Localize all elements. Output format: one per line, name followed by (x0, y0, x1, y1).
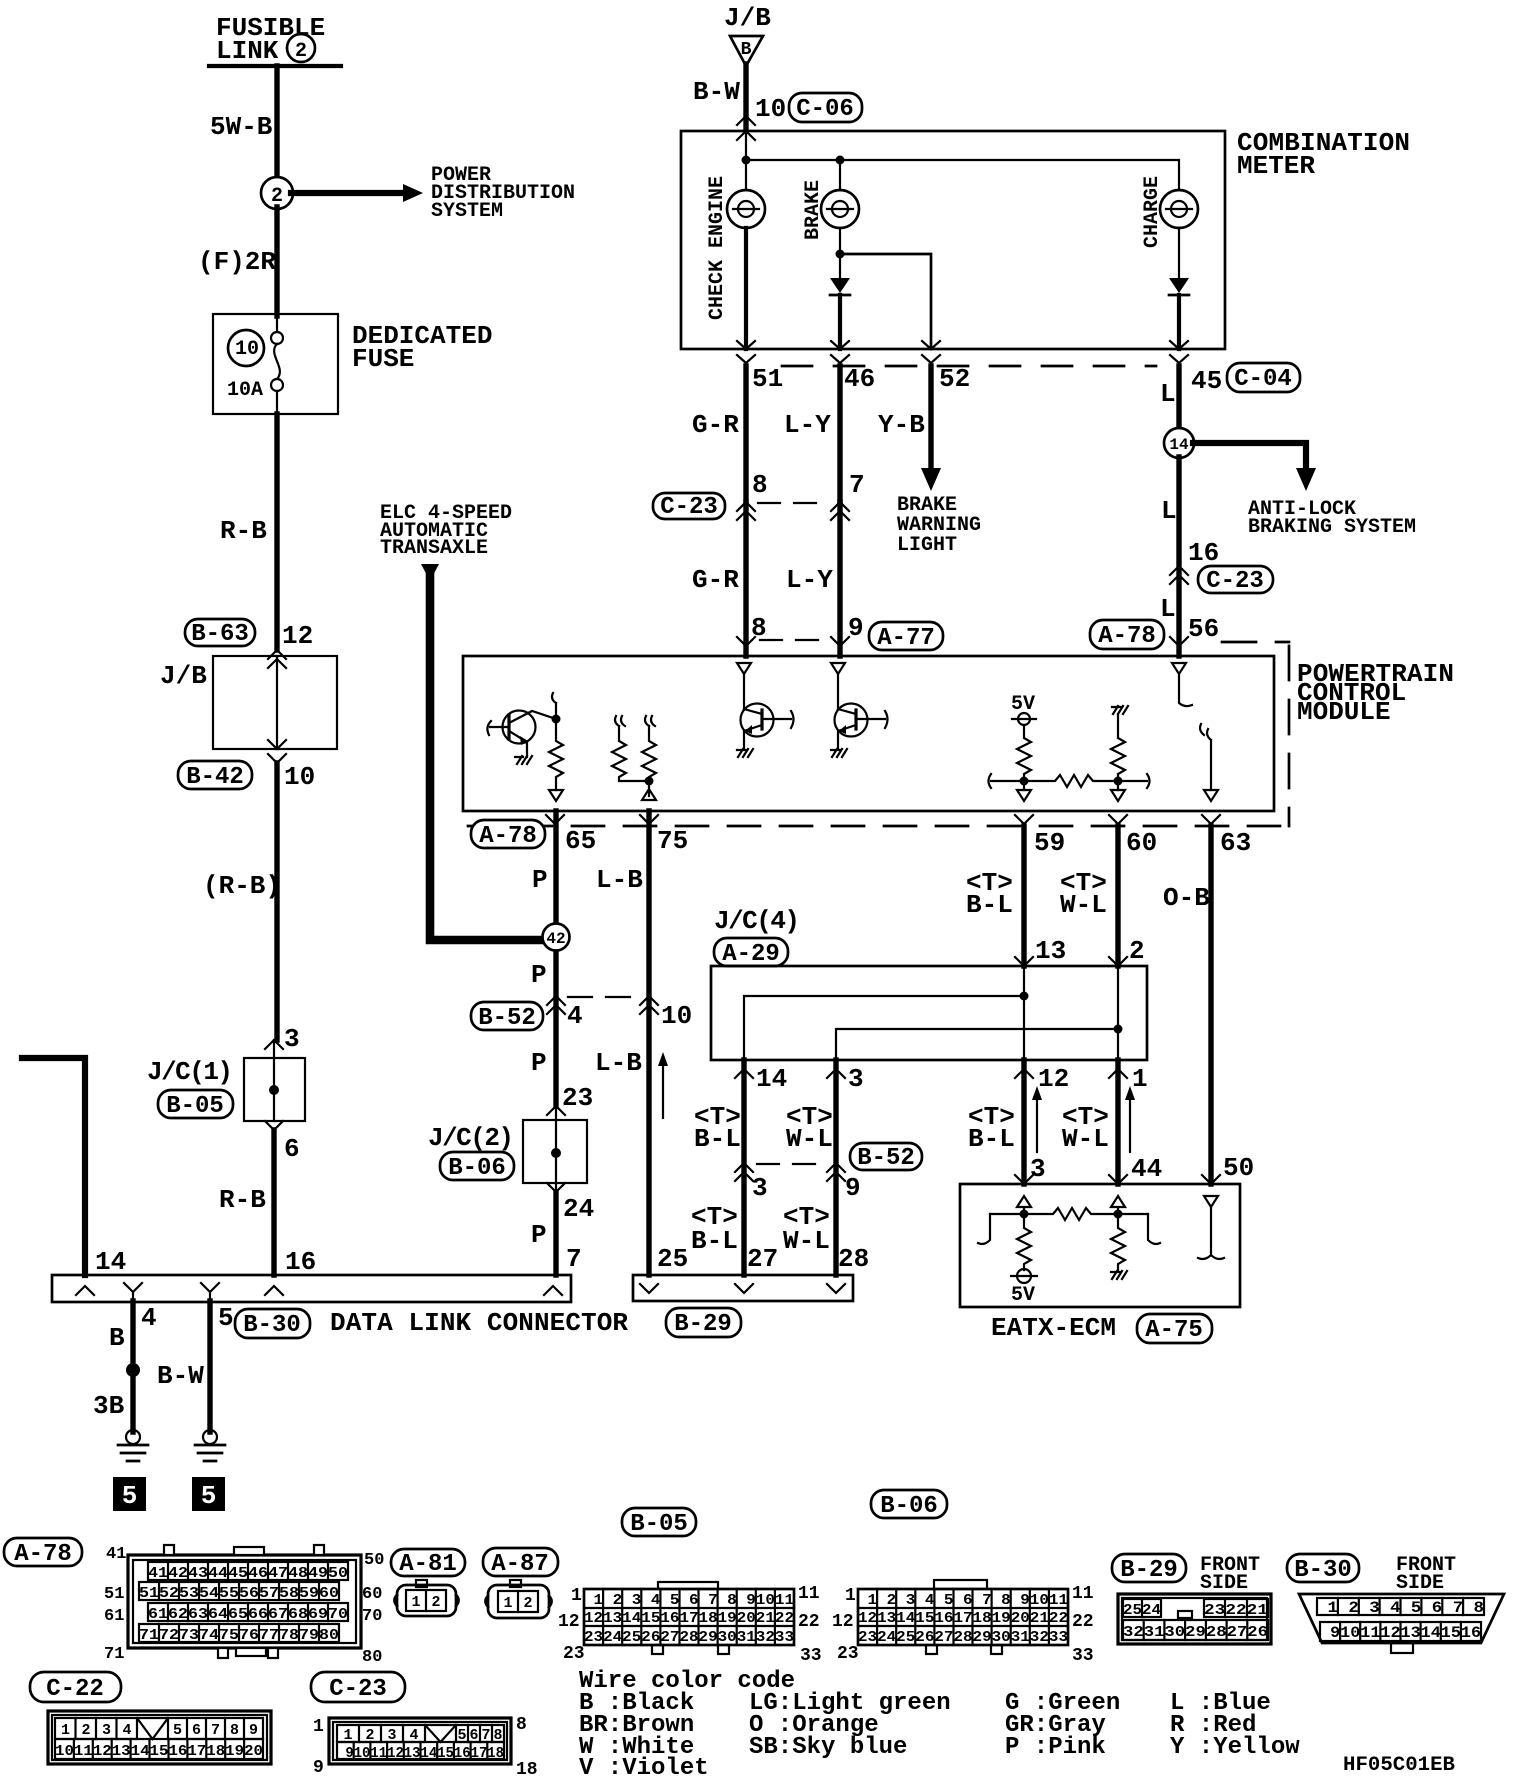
wire O-B from pin 63 (1208, 826, 1213, 1184)
node at Q1 collector (552, 715, 561, 724)
B-52 crossing chevrons L-B (640, 996, 658, 1014)
label T W-L right (1062, 1102, 1109, 1154)
svg-text:B-29: B-29 (674, 1311, 732, 1338)
chevron pin 50 EATX (1202, 1175, 1220, 1184)
chevron pin 8 PCM (737, 637, 755, 646)
svg-text:B-52: B-52 (478, 1005, 536, 1032)
svg-text:12: 12 (832, 1612, 854, 1632)
svg-text:C-04: C-04 (1234, 366, 1292, 393)
svg-text:61626364656667686970: 61626364656667686970 (148, 1606, 348, 1623)
wire T W-L jc4 to B-29 (833, 1060, 838, 1275)
svg-text:B-52: B-52 (857, 1145, 915, 1172)
connector B-52 label left (471, 1002, 543, 1032)
svg-text:9101112131415161718: 9101112131415161718 (337, 1745, 504, 1762)
A-78 corner labels (104, 1545, 384, 1667)
C-23 crossing chevrons L-Y (831, 502, 849, 520)
chevron pin 13 (1015, 957, 1033, 966)
svg-text:2524: 2524 (1123, 1602, 1161, 1619)
label COMBINATION METER (1237, 128, 1410, 181)
chevron J/C(2) top (547, 1106, 565, 1115)
label FRONT SIDE B-30 (1396, 1554, 1456, 1595)
junction connector J/C(1) box (244, 1040, 305, 1121)
ground ref box 5 left (113, 1477, 146, 1511)
svg-text:1: 1 (503, 1595, 512, 1612)
connector C-23 label bottom (311, 1672, 405, 1703)
wire color code legend (579, 1668, 1300, 1776)
svg-text:DATA LINK CONNECTOR: DATA LINK CONNECTOR (330, 1308, 628, 1338)
chevron pin 2 (1109, 957, 1127, 966)
svg-text:71727374757677787980: 71727374757677787980 (139, 1627, 339, 1644)
svg-text:A-75: A-75 (1145, 1317, 1203, 1344)
chevron pin 59 (1015, 815, 1033, 824)
connector B-05 label (158, 1090, 233, 1120)
wire T B-L jc4 to B-29 (741, 1060, 746, 1275)
svg-text:5V: 5V (1011, 1284, 1035, 1307)
svg-text:2324252627282930313233: 2324252627282930313233 (858, 1629, 1068, 1646)
svg-text:11: 11 (798, 1584, 820, 1604)
chevron pin 75 (640, 815, 658, 824)
wire (R-B) (274, 763, 279, 1040)
svg-text:C-06: C-06 (796, 96, 854, 123)
ground hatch EATX (1111, 1271, 1127, 1279)
wire diode to pin 46 (838, 295, 842, 349)
svg-text:A-77: A-77 (877, 625, 935, 652)
ground hatch Q3 (831, 749, 847, 757)
svg-text:22: 22 (1072, 1612, 1094, 1632)
svg-text:B-06: B-06 (880, 1493, 938, 1520)
svg-text:51: 51 (752, 364, 783, 394)
chevron pin 7 (544, 1286, 562, 1295)
svg-text:1213141516171819202122: 1213141516171819202122 (858, 1610, 1068, 1627)
svg-text:B-29: B-29 (1120, 1557, 1178, 1584)
ground symbol right (195, 1430, 225, 1461)
wire P from pin 65 (553, 811, 558, 1275)
chevron J/C(2) bottom (547, 1183, 565, 1192)
svg-text:L-Y: L-Y (786, 565, 833, 595)
svg-text:51: 51 (104, 1585, 124, 1604)
svg-text:2: 2 (1129, 936, 1145, 966)
svg-text:24: 24 (563, 1194, 594, 1224)
chevrons at meter box bottom (737, 341, 755, 363)
label ANTI-LOCK BRAKING SYSTEM (1248, 498, 1416, 539)
ground hatch Q1 (515, 756, 532, 764)
resistor R6 (pin 60) (1111, 715, 1125, 790)
PCM dashed boundary right (1222, 642, 1289, 826)
svg-text:C-23: C-23 (329, 1676, 387, 1703)
svg-text:10: 10 (755, 94, 786, 124)
svg-text:4: 4 (567, 1001, 583, 1031)
svg-text:13: 13 (1035, 936, 1066, 966)
pin 50 internal stub (1198, 1207, 1224, 1259)
A-78 pin row 61-70 (148, 1603, 348, 1623)
svg-text:41: 41 (106, 1545, 126, 1564)
svg-text:W-L: W-L (1062, 1124, 1109, 1154)
transistor Q2 (pin 8) (737, 663, 794, 749)
svg-text:23: 23 (562, 1083, 593, 1113)
connector A-75 label (1137, 1314, 1212, 1344)
svg-text:C-22: C-22 (46, 1676, 104, 1703)
svg-text:R-B: R-B (219, 1185, 266, 1215)
svg-text:3B: 3B (93, 1391, 125, 1421)
connector C-23 label right (1198, 566, 1273, 595)
svg-text:5: 5 (201, 1481, 217, 1511)
svg-text:12: 12 (282, 621, 313, 651)
5V source symbol EATX (1011, 1269, 1037, 1283)
B-52 crossing chevrons P (547, 996, 565, 1014)
svg-text:33: 33 (800, 1646, 822, 1666)
dashed link B-52 (568, 996, 640, 998)
svg-text:P :Pink: P :Pink (1005, 1734, 1106, 1761)
svg-text:B-L: B-L (691, 1226, 738, 1256)
svg-text:61: 61 (104, 1607, 124, 1626)
svg-text:W-L: W-L (783, 1226, 830, 1256)
label T B-L (966, 868, 1013, 920)
svg-text:SIDE: SIDE (1200, 1572, 1248, 1595)
svg-text:1 2 3 4 5 6 7 8: 1 2 3 4 5 6 7 8 (1317, 1599, 1484, 1617)
svg-text:A-78: A-78 (1098, 623, 1156, 650)
junction dot R2/R3 (645, 777, 654, 786)
svg-text:1: 1 (845, 1586, 856, 1606)
connector B-42 label (178, 761, 252, 791)
svg-text:10: 10 (235, 338, 259, 361)
wire T W-L from pin 60 (1115, 826, 1120, 966)
svg-text:J/B: J/B (160, 661, 207, 691)
resistor R9 to ground (1111, 1214, 1125, 1270)
wire G-R lower (743, 502, 748, 656)
connector B-30 label (235, 1309, 310, 1339)
svg-text:12: 12 (558, 1612, 580, 1632)
svg-text:R-B: R-B (220, 516, 267, 546)
PCM solid box (463, 656, 1274, 811)
svg-text:1: 1 (411, 1594, 420, 1611)
label T W-L left (786, 1102, 833, 1154)
wire B-W from J/B (743, 64, 748, 131)
chevron pin 5 (201, 1283, 219, 1301)
svg-text:910111213141516: 910111213141516 (1320, 1624, 1481, 1642)
svg-text:P: P (531, 1220, 547, 1250)
dashed link between C-23 pins (758, 502, 828, 504)
svg-text:52: 52 (939, 364, 970, 394)
svg-text:44: 44 (1131, 1154, 1162, 1184)
svg-text:SIDE: SIDE (1396, 1572, 1444, 1595)
open arrow pin 60 (1111, 790, 1125, 801)
svg-text:B-L: B-L (694, 1124, 741, 1154)
open arrow pin 59 (1017, 790, 1031, 801)
chevron pin 1 (1109, 1069, 1127, 1078)
svg-text:9: 9 (845, 1173, 861, 1203)
svg-text:9: 9 (249, 1722, 258, 1739)
B-52 crossing chevrons B-L (735, 1163, 753, 1181)
PCM dashed boundary bottom (468, 825, 1289, 828)
chevron pin 9 PCM (831, 637, 849, 646)
open arrow pin 65 (549, 790, 563, 801)
wire brake branch to pin 52 (840, 254, 931, 349)
svg-text:CHARGE: CHARGE (1141, 176, 1164, 248)
junction dot on wire B (126, 1363, 140, 1377)
junction block J/B box (160, 656, 337, 749)
wire (F)2R (274, 207, 279, 316)
label T B-L lower (691, 1202, 738, 1256)
svg-text:3: 3 (848, 1064, 864, 1094)
node 42 (543, 924, 570, 951)
svg-text:J/C(2): J/C(2) (428, 1123, 514, 1153)
resistor R4 (pin 59) (1017, 725, 1031, 790)
svg-text:SYSTEM: SYSTEM (431, 200, 503, 223)
wire Y-B with arrow (921, 366, 941, 491)
DATA LINK CONNECTOR box B-30 (52, 1275, 571, 1302)
chevron pin 4 (124, 1283, 142, 1301)
svg-text:W-L: W-L (1060, 890, 1107, 920)
chevron at J/C(1) top (265, 1040, 283, 1049)
svg-text:2: 2 (81, 1722, 90, 1739)
diode charge (1169, 278, 1189, 295)
wire L-B from pin 75 (646, 811, 651, 1275)
connector B-29 label (1112, 1554, 1186, 1584)
svg-text:9: 9 (313, 1758, 324, 1776)
svg-text:2324252627282930313233: 2324252627282930313233 (584, 1629, 794, 1646)
svg-text:A-87: A-87 (491, 1551, 549, 1578)
chevron pin 63 (1202, 815, 1220, 824)
wire T B-L from pin 59 (1021, 826, 1026, 966)
connector A-87 pinout (486, 1580, 552, 1618)
svg-text:L-Y: L-Y (784, 410, 831, 440)
svg-text:14: 14 (1169, 436, 1189, 454)
open arrow up pin 75 (642, 781, 656, 800)
transistor Q1 (487, 711, 556, 758)
connector B-05 pinout (584, 1582, 794, 1654)
resistor R3 (pin 75) (642, 716, 656, 780)
A-78 pin row 41-50 (148, 1562, 348, 1582)
svg-text:Y :Yellow: Y :Yellow (1170, 1734, 1300, 1761)
svg-text:TRANSAXLE: TRANSAXLE (380, 537, 488, 560)
svg-text:28: 28 (838, 1244, 869, 1274)
lamp BRAKE (821, 190, 859, 228)
resistor R1 (pin 65) (549, 719, 563, 790)
connector B-06 label (871, 1490, 947, 1520)
svg-text:41424344454647484950: 41424344454647484950 (148, 1565, 348, 1582)
svg-text:3: 3 (1030, 1154, 1046, 1184)
svg-text:(F)2R: (F)2R (198, 247, 276, 277)
svg-text:J/C(4): J/C(4) (714, 906, 800, 936)
svg-text:P: P (531, 960, 547, 990)
ground hatch Q2 (737, 749, 753, 757)
wire arrow to anti-lock braking system (1193, 443, 1316, 491)
svg-text:B: B (109, 1323, 125, 1353)
svg-text:7: 7 (566, 1244, 582, 1274)
label DEDICATED FUSE (352, 321, 492, 374)
svg-text:232221: 232221 (1204, 1602, 1268, 1619)
node 2 (261, 177, 293, 209)
connector B-30 pinout (1299, 1594, 1504, 1653)
svg-text:P: P (532, 865, 548, 895)
svg-text:45: 45 (1191, 366, 1222, 396)
svg-text:60: 60 (362, 1585, 382, 1604)
connector C-22 label (30, 1672, 121, 1703)
dashed link B-52 lower (757, 1163, 824, 1165)
connector A-87 label (483, 1548, 558, 1578)
svg-text:22: 22 (798, 1612, 820, 1632)
A-78 pin row 71-80 (139, 1624, 339, 1644)
chevron at B-63 (268, 650, 286, 668)
svg-text:L: L (1160, 379, 1176, 409)
svg-text:C-23: C-23 (660, 494, 718, 521)
svg-text:A-78: A-78 (14, 1541, 72, 1568)
svg-text:CHECK ENGINE: CHECK ENGINE (706, 176, 729, 320)
svg-text:25: 25 (657, 1244, 688, 1274)
chevron pin 65 (546, 815, 564, 824)
svg-text:EATX-ECM: EATX-ECM (991, 1313, 1116, 1343)
svg-text:7: 7 (211, 1722, 220, 1739)
B-05 corner labels (558, 1584, 822, 1666)
dedicated fuse box (213, 314, 338, 414)
svg-text:1: 1 (313, 1717, 324, 1737)
wire brake lamp down (839, 228, 841, 277)
label T B-L right (968, 1102, 1015, 1154)
svg-text:2: 2 (431, 1594, 440, 1611)
pin 63 internal stub (1200, 724, 1218, 801)
svg-text:B-42: B-42 (186, 764, 244, 791)
svg-text:63: 63 (1220, 828, 1251, 858)
svg-text:16: 16 (1188, 538, 1219, 568)
svg-text:FUSE: FUSE (352, 344, 414, 374)
svg-text:1: 1 (1132, 1064, 1148, 1094)
svg-text:80: 80 (362, 1648, 382, 1667)
svg-text:10: 10 (661, 1001, 692, 1031)
chevron pin 3 (827, 1069, 845, 1078)
B-06 corner labels (832, 1584, 1094, 1666)
J/B triangle with B (730, 36, 763, 66)
svg-text:B: B (741, 40, 752, 60)
A-78 pin row 51-60 (139, 1582, 339, 1602)
svg-text:2: 2 (295, 40, 307, 63)
wire B-W to ground (207, 1301, 212, 1432)
svg-text:51525354555657585960: 51525354555657585960 (139, 1585, 339, 1602)
wire L below node 14 (1176, 457, 1181, 656)
fusible link label (209, 13, 341, 66)
svg-text:B-63: B-63 (191, 621, 249, 648)
ground hatch R6 top (1112, 706, 1128, 714)
svg-text:56: 56 (1188, 614, 1219, 644)
svg-text:J/C(1): J/C(1) (147, 1057, 233, 1087)
svg-text:HF05C01EB: HF05C01EB (1343, 1754, 1455, 1776)
svg-text:A-29: A-29 (722, 941, 780, 968)
svg-text:B-L: B-L (966, 890, 1013, 920)
svg-text:16: 16 (285, 1247, 316, 1277)
label POWER DISTRIBUTION SYSTEM (431, 164, 575, 223)
svg-text:1213141516171819202122: 1213141516171819202122 (584, 1610, 794, 1627)
diode brake (830, 278, 850, 295)
svg-text:B-30: B-30 (1294, 1557, 1352, 1584)
arrow pin 25 (640, 1284, 658, 1293)
wire transaxle thick (430, 577, 545, 940)
svg-text:10A: 10A (227, 379, 263, 402)
svg-text:1: 1 (61, 1722, 70, 1739)
label T W-L lower (783, 1202, 830, 1256)
connector C-06 label (789, 93, 862, 123)
svg-text:4: 4 (122, 1722, 131, 1739)
junction dots EATX (1020, 1210, 1029, 1219)
svg-text:METER: METER (1237, 151, 1315, 181)
pin 56 internal stub (1172, 663, 1192, 706)
svg-text:5: 5 (173, 1722, 182, 1739)
svg-text:42: 42 (546, 930, 565, 948)
resistor R2 (612, 716, 649, 781)
svg-text:O-B: O-B (1163, 883, 1210, 913)
connector B-52 label right (850, 1143, 922, 1172)
connector B-29 pinout (1118, 1594, 1271, 1644)
svg-text:71: 71 (104, 1645, 124, 1664)
svg-text:BRAKE: BRAKE (802, 180, 825, 240)
svg-text:5: 5 (122, 1481, 138, 1511)
junction connector J/C(4) box (711, 966, 1147, 1060)
chevron pin 60 (1109, 815, 1127, 824)
connector A-29 label (714, 938, 788, 968)
svg-text:70: 70 (362, 1607, 382, 1626)
svg-text:G-R: G-R (692, 565, 739, 595)
wire R-B to DLC (271, 1130, 276, 1275)
svg-text:14: 14 (756, 1064, 787, 1094)
EATX pin 3 triangle (1017, 1196, 1031, 1214)
wire charge lamp down (1178, 228, 1180, 277)
connector A-78 label top (1090, 620, 1164, 650)
B-52 crossing chevrons W-L (827, 1163, 845, 1181)
wire L from pin 45 (1176, 366, 1181, 429)
connector B-05 label (622, 1508, 696, 1538)
connector B-30 label (1287, 1554, 1359, 1584)
wire G-R upper (743, 366, 748, 502)
wire T B-L to EATX (1021, 1060, 1026, 1184)
flow arrow up L-B (658, 1052, 668, 1118)
wire check engine lamp to pin 51 (744, 228, 748, 349)
svg-text:B-05: B-05 (630, 1511, 688, 1538)
svg-text:LINK: LINK (216, 36, 279, 66)
svg-text:33: 33 (1072, 1646, 1094, 1666)
ground symbol left (118, 1430, 148, 1461)
wire top bus inside meter (742, 131, 1180, 190)
svg-text:8: 8 (752, 470, 768, 500)
svg-text:18: 18 (516, 1760, 538, 1776)
svg-text:1: 1 (571, 1586, 582, 1606)
svg-text:3: 3 (284, 1024, 300, 1054)
svg-text:3: 3 (752, 1173, 768, 1203)
svg-text:4: 4 (141, 1303, 157, 1333)
chevron pin 56 (1170, 637, 1188, 646)
node 14 (1164, 428, 1194, 458)
connector A-78 pinout (128, 1545, 361, 1658)
svg-text:MODULE: MODULE (1297, 697, 1391, 727)
EATX sense line with resistor R7 (978, 1208, 1160, 1244)
junction dot brake branch (836, 250, 845, 259)
wire feed from left edge to DLC pin 14 (22, 1058, 85, 1275)
arrow from transaxle (421, 564, 439, 581)
svg-text:32313029282726: 32313029282726 (1123, 1624, 1268, 1641)
svg-text:B-W: B-W (693, 77, 740, 107)
COMBINATION METER box (681, 131, 1225, 349)
svg-text:L: L (1161, 496, 1177, 526)
chevron at J/C(1) bottom (265, 1121, 283, 1130)
junction dot pin 59 (1020, 777, 1029, 786)
connector A-78 label (4, 1538, 82, 1568)
connector C-04 label (1227, 363, 1300, 393)
flow arrow up W-L (1125, 1086, 1135, 1152)
svg-text:2: 2 (523, 1595, 532, 1612)
svg-text:B-06: B-06 (448, 1155, 506, 1182)
wire 5W-B (274, 66, 279, 180)
lamp CHARGE (1160, 190, 1198, 228)
label T B-L left (694, 1102, 741, 1154)
chevron pin 14 (76, 1286, 94, 1295)
svg-text:B-30: B-30 (243, 1312, 301, 1339)
